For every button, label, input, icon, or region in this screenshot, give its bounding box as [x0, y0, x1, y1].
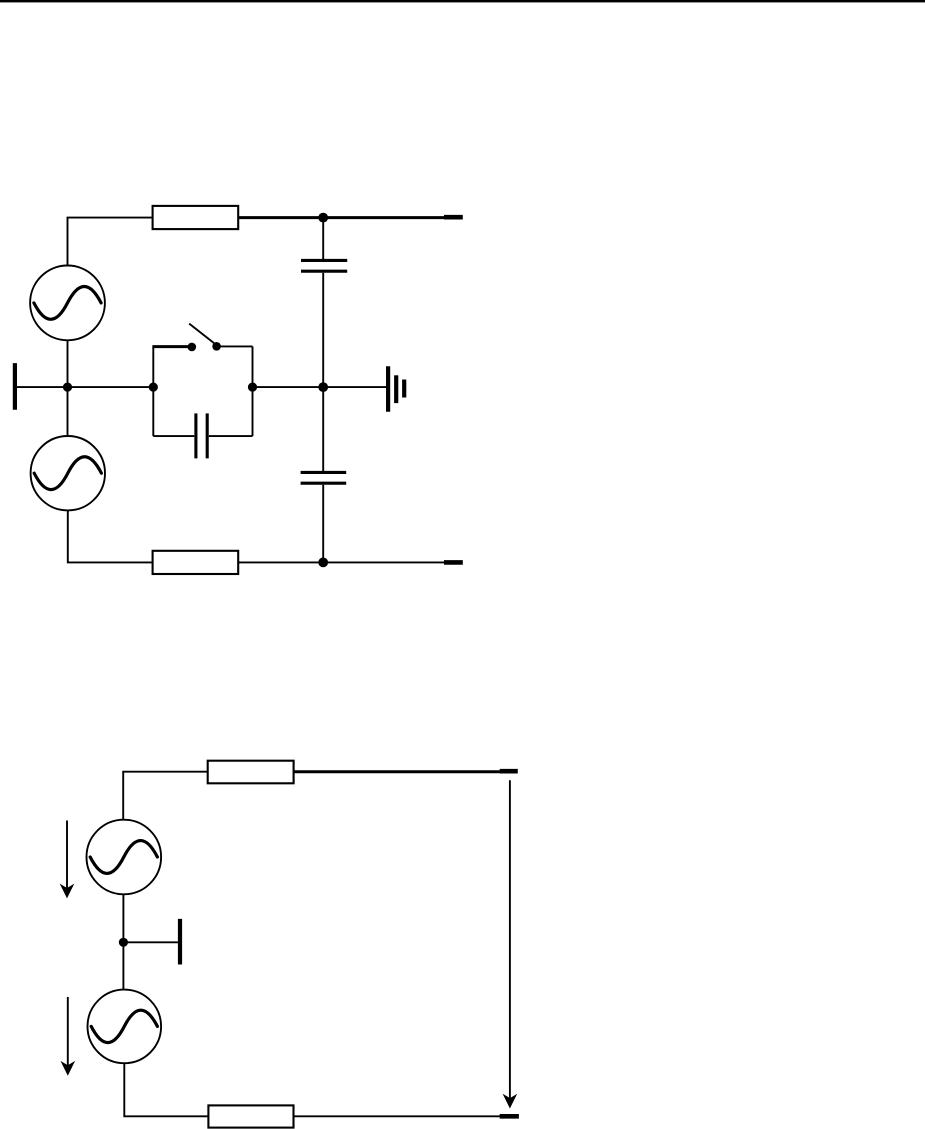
resistor R2 — [153, 551, 239, 574]
junction — [248, 383, 257, 392]
capacitor C1 — [301, 260, 347, 271]
wire — [68, 218, 153, 266]
wire — [124, 1063, 208, 1116]
terminal dash — [444, 560, 463, 565]
wire — [68, 510, 153, 562]
wire — [322, 273, 324, 387]
voltage source V1 — [30, 266, 105, 341]
wire — [67, 340, 69, 387]
junction — [318, 213, 328, 223]
wire — [238, 561, 445, 563]
terminal dash — [500, 1114, 519, 1119]
wire — [294, 1115, 502, 1117]
junction — [318, 382, 328, 392]
voltage source V3 — [87, 820, 162, 895]
wire — [209, 435, 253, 437]
terminal dash — [500, 769, 518, 774]
wire — [152, 345, 188, 348]
terminal dash — [444, 215, 463, 220]
wire — [15, 386, 68, 388]
terminal — [178, 919, 182, 965]
wire — [122, 894, 124, 990]
wire — [323, 386, 387, 388]
wire — [68, 386, 154, 388]
wire — [294, 770, 501, 773]
wire — [152, 347, 154, 437]
wire — [153, 435, 194, 437]
junction — [318, 558, 328, 568]
capacitor C3 — [196, 413, 207, 458]
wire — [253, 386, 324, 388]
junction — [63, 383, 72, 392]
resistor R1 — [153, 206, 239, 229]
wire — [252, 346, 254, 436]
junction — [149, 383, 158, 392]
ground — [388, 366, 404, 411]
switch S1 — [188, 324, 221, 352]
wire — [322, 485, 324, 563]
resistor R3 — [208, 761, 294, 784]
wire — [123, 941, 178, 943]
wire — [67, 387, 69, 436]
voltage source V2 — [31, 436, 105, 510]
input terminal — [13, 363, 17, 410]
current arrow I — [503, 780, 518, 1108]
wire — [217, 345, 253, 347]
wire — [322, 387, 324, 471]
wire — [322, 218, 324, 259]
current arrow i1 — [60, 821, 75, 899]
current arrow i2 — [61, 997, 76, 1076]
resistor R4 — [208, 1105, 293, 1127]
page top border — [0, 0, 925, 2]
junction — [119, 938, 128, 947]
capacitor C2 — [301, 472, 347, 483]
wire — [238, 216, 445, 219]
wire — [123, 772, 208, 821]
voltage source V4 — [88, 990, 162, 1064]
